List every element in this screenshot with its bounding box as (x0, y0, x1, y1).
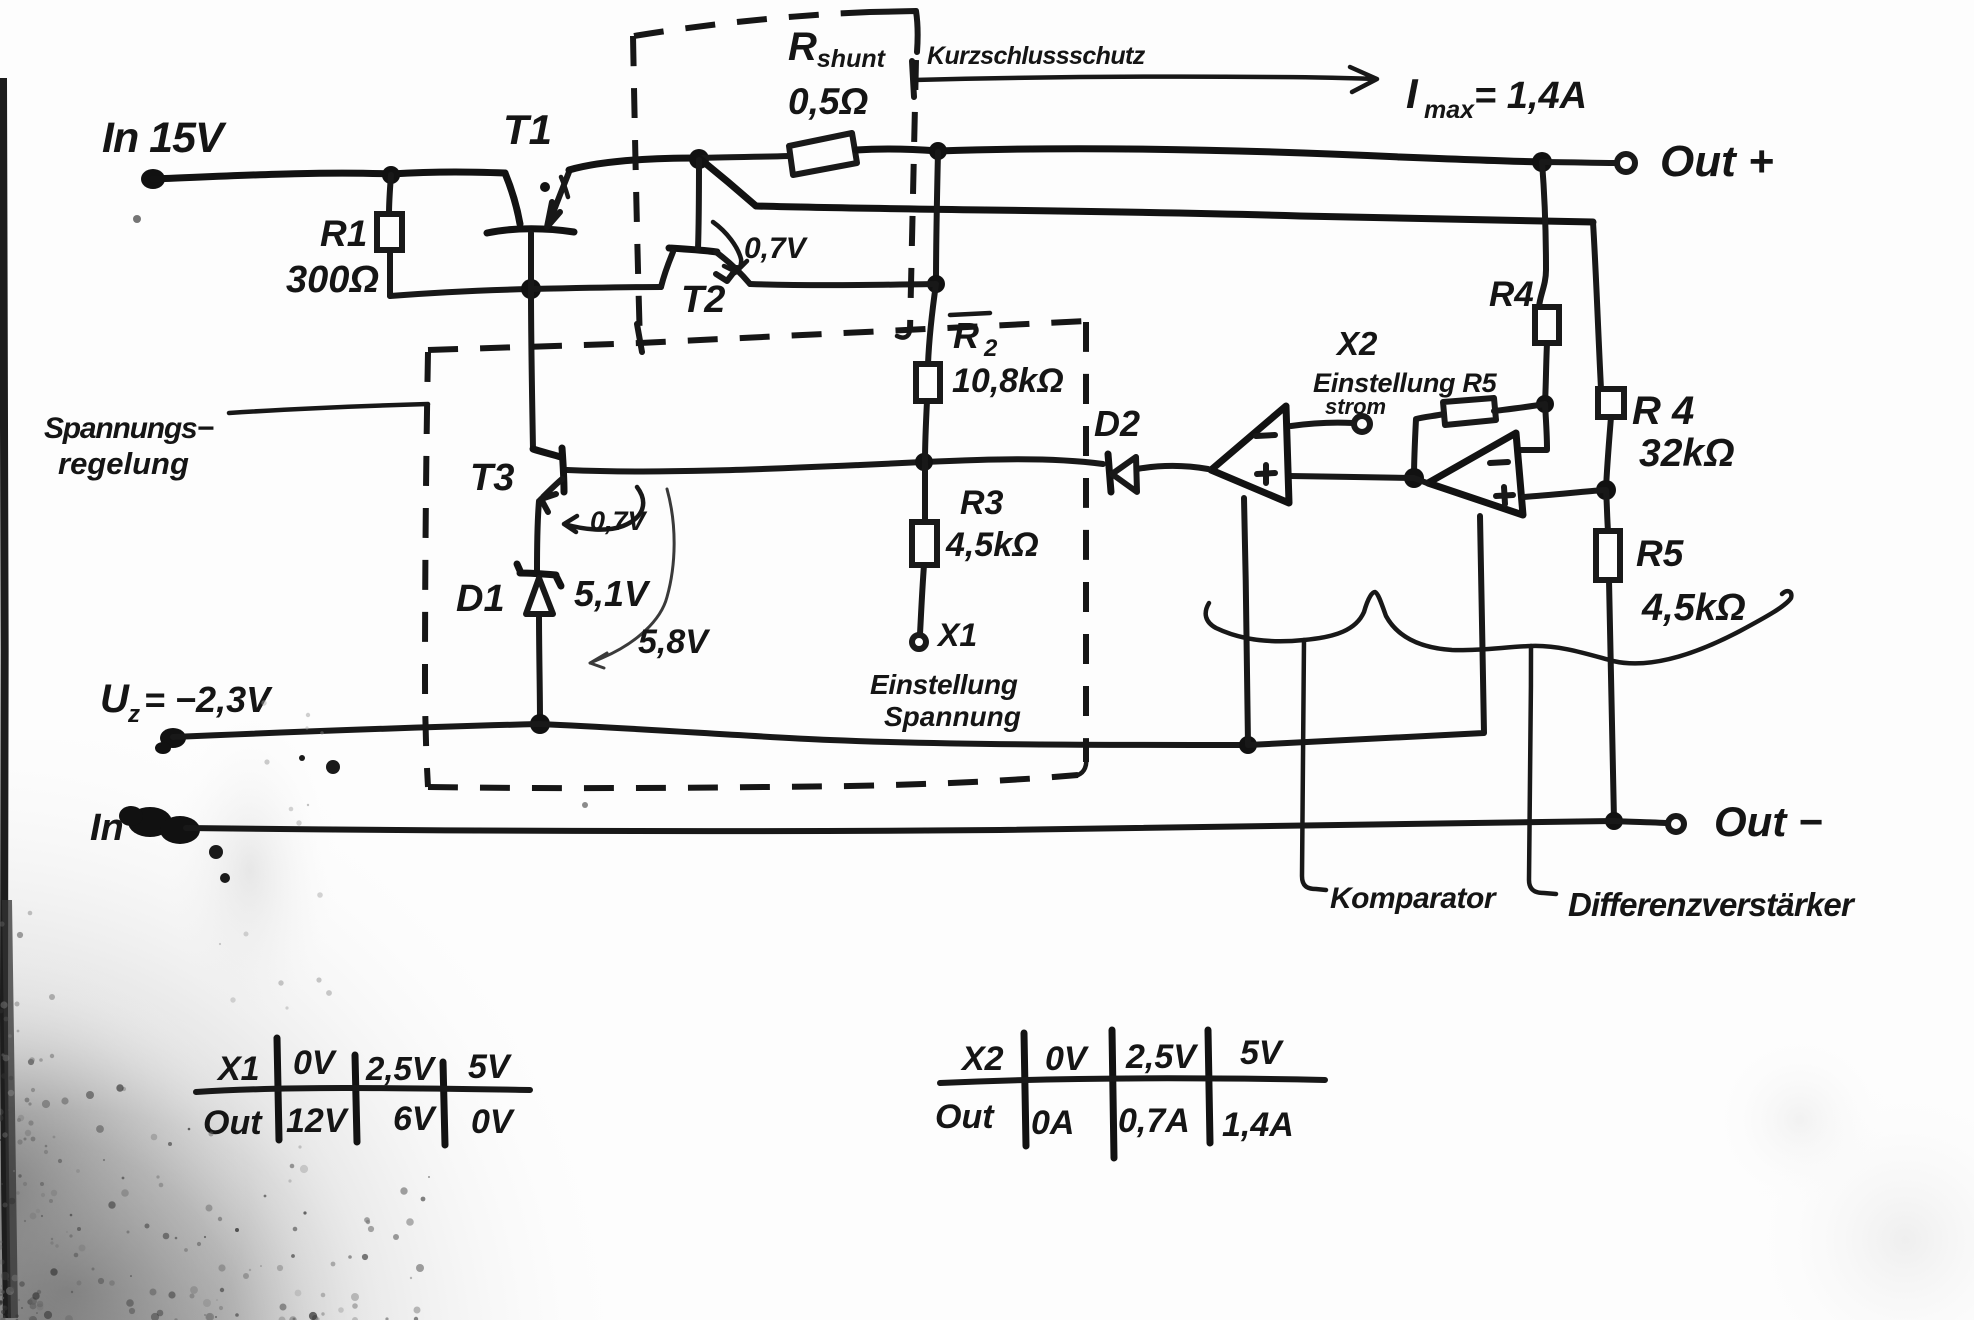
wire node K down to T3 (531, 290, 533, 449)
svg-text:5,8V: 5,8V (638, 623, 711, 661)
node I junction (927, 275, 945, 293)
wire D2 to op1 output (1137, 466, 1208, 469)
svg-text:Spannung: Spannung (884, 701, 1021, 732)
wire T2 collector to node I (750, 284, 935, 285)
svg-text:Einstellung: Einstellung (870, 669, 1018, 700)
svg-text:4,5kΩ: 4,5kΩ (945, 526, 1039, 564)
wire T3 emitter to D1 (537, 501, 539, 571)
svg-text:X2: X2 (1335, 325, 1378, 362)
transistor T2 (661, 160, 750, 287)
dashed box Kurzschlussschutz top (634, 12, 870, 36)
op-amp U2 Differenzverstaerker (1428, 433, 1523, 515)
wire op1 minus input to X2 (1291, 423, 1353, 426)
svg-text:5V: 5V (1240, 1034, 1285, 1072)
svg-text:R: R (953, 315, 979, 356)
node C junction (929, 142, 947, 160)
node J junction (1605, 812, 1623, 830)
svg-text:D2: D2 (1094, 403, 1140, 444)
svg-text:0A: 0A (1031, 1104, 1074, 1142)
wire input to node A (153, 173, 391, 179)
node B junction (689, 149, 709, 169)
svg-text:0,5Ω: 0,5Ω (788, 81, 868, 122)
resistor R1 (377, 214, 402, 250)
svg-text:Komparator: Komparator (1330, 882, 1498, 915)
wire second rail to R4 corner (756, 206, 1593, 222)
node Out- terminal (1668, 816, 1684, 832)
wire D1 to node L (539, 614, 540, 723)
svg-text:300Ω: 300Ω (286, 259, 379, 301)
svg-text:R 4: R 4 (1632, 389, 1694, 433)
node G junction (1536, 395, 1554, 413)
arrow 5,8V (590, 489, 674, 668)
svg-text:2,5V: 2,5V (1125, 1038, 1199, 1076)
svg-text:32kΩ: 32kΩ (1639, 432, 1735, 475)
svg-text:5,1V: 5,1V (574, 573, 651, 614)
wire node H down to R5 (1606, 490, 1608, 531)
dashed box Spannungsregelung right (1083, 322, 1089, 762)
wire R1 to corner (387, 250, 393, 296)
svg-text:X1: X1 (936, 617, 977, 653)
svg-text:5V: 5V (468, 1048, 513, 1086)
table X2 current (940, 1030, 1325, 1158)
svg-text:R1: R1 (320, 213, 367, 254)
wire top rail to node D (938, 149, 1542, 162)
corner speckle texture (decorative) (0, 700, 430, 1320)
scan left edge strip (decorative) (3, 78, 7, 1318)
svg-text:4,5kΩ: 4,5kΩ (1641, 587, 1746, 629)
wire node D down to R4 upper (1539, 162, 1546, 307)
svg-text:Kurzschlussschutz: Kurzschlussschutz (927, 42, 1146, 70)
node A junction (382, 166, 400, 184)
svg-text:strom: strom (1325, 394, 1386, 419)
node X2 terminal (1354, 416, 1370, 432)
svg-text:1,4A: 1,4A (1222, 1106, 1294, 1144)
svg-text:T1: T1 (503, 106, 552, 153)
arrow 0,7V at T2 (713, 222, 747, 273)
svg-text:10,8kΩ: 10,8kΩ (952, 362, 1064, 400)
wire R1 bottom rail to node K (390, 289, 530, 296)
wire node I to R2 (928, 284, 936, 364)
node Out+ terminal (1617, 154, 1635, 172)
wire Rshunt to node C (856, 149, 938, 151)
resistor R4 32k (1598, 389, 1624, 417)
wire R2 to node E (925, 401, 927, 461)
dashed box Kurzschlussschutz left (633, 36, 640, 344)
svg-text:= 1,4A: = 1,4A (1474, 75, 1587, 117)
op-amp U1 Komparator (1211, 406, 1289, 503)
svg-text:T3: T3 (470, 457, 514, 499)
svg-text:Spannungs−: Spannungs− (44, 412, 214, 445)
wire wavy brace (1206, 591, 1792, 663)
svg-text:0,7A: 0,7A (1118, 1102, 1190, 1140)
tick on divider (637, 324, 642, 352)
diode D2 (1108, 454, 1137, 492)
node Uz terminal (160, 728, 186, 748)
wire node A down to R1 (389, 175, 391, 214)
node D junction (1532, 152, 1552, 172)
svg-text:R4: R4 (1489, 275, 1534, 314)
wire feedback resistor left down to node F (1414, 414, 1444, 477)
svg-text:X1: X1 (216, 1050, 260, 1088)
resistor R4 upper (1535, 307, 1559, 343)
svg-text:0,7V: 0,7V (744, 232, 809, 265)
wire R5 down to node J on Out- rail (1609, 580, 1614, 820)
dashed box corner top right (870, 11, 918, 52)
node H junction (1596, 480, 1616, 500)
wire node B to Rshunt (699, 156, 789, 158)
svg-text:D1: D1 (456, 578, 505, 620)
wire Differenzverstaerker leader (1529, 646, 1556, 894)
wire T1 base down to node K (528, 233, 534, 288)
wire node E to R3 (922, 463, 928, 522)
wire node B diagonal to second rail (699, 158, 756, 206)
diode D1 zener (517, 564, 561, 614)
node E junction (915, 453, 933, 471)
svg-text:In 15V: In 15V (102, 114, 227, 162)
svg-text:6V: 6V (393, 1100, 438, 1138)
svg-text:X2: X2 (960, 1040, 1004, 1078)
svg-text:Out: Out (203, 1104, 263, 1142)
node X1 terminal (912, 635, 926, 649)
svg-text:z: z (127, 701, 140, 728)
scanner corner shading (decorative) (0, 740, 680, 1320)
resistor R2 (916, 364, 940, 401)
svg-text:2: 2 (983, 335, 998, 362)
wire Spannungsregelung leader (229, 404, 428, 413)
wire R3 to X1 (920, 565, 924, 634)
resistor Rshunt (789, 133, 857, 175)
svg-text:Differenzverstärker: Differenzverstärker (1568, 886, 1856, 923)
wire R4 upper to node G (1545, 343, 1547, 403)
dashed box Kurzschlussschutz right (910, 60, 916, 330)
wire op2 plus input to node H (1524, 490, 1604, 497)
wire Out- rail (186, 821, 1666, 831)
wire node D to Out+ terminal (1542, 162, 1616, 163)
svg-text:R5: R5 (1636, 533, 1685, 574)
node M junction (1239, 736, 1257, 754)
svg-text:Out +: Out + (1660, 137, 1774, 186)
arrow Kurzschlussschutz (914, 67, 1377, 92)
svg-text:0V: 0V (471, 1103, 516, 1141)
node L junction (530, 714, 550, 734)
node In 15V terminal (141, 169, 165, 189)
svg-text:2,5V: 2,5V (365, 1050, 437, 1087)
wire node A to T1 collector (391, 172, 505, 174)
svg-text:0V: 0V (293, 1044, 338, 1082)
arrow 0,7V at T3 (564, 487, 643, 532)
node In 0V terminal (119, 806, 200, 844)
wire Uz rail (173, 724, 1248, 745)
svg-text:max: max (1424, 96, 1475, 124)
wire node C down to node I (936, 152, 938, 283)
wire node K to T2 emitter (531, 287, 661, 289)
table X1 voltage (196, 1038, 530, 1145)
wire T3 base rail to node E and D2 (567, 459, 1103, 471)
node F junction (1404, 468, 1424, 488)
resistor R3 (912, 522, 937, 565)
ink specks (decorative) (133, 215, 588, 883)
svg-text:In: In (90, 807, 124, 849)
transistor T3 (533, 448, 564, 512)
dashed box Spannungsregelung left (425, 352, 428, 787)
wire node G to feedback resistor (1494, 404, 1545, 411)
dashed divider line (428, 321, 1086, 350)
svg-text:Out: Out (935, 1098, 995, 1136)
dashed box Spannungsregelung bottom (428, 775, 1078, 788)
svg-text:T2: T2 (681, 279, 725, 321)
resistor feedback (1443, 398, 1496, 425)
wire Uz rail to corner up (1248, 516, 1484, 745)
svg-text:12V: 12V (286, 1102, 350, 1140)
wire node G down and to op2 minus input (1519, 404, 1547, 450)
svg-text:Out −: Out − (1714, 798, 1823, 845)
svg-text:= −2,3V: = −2,3V (144, 679, 273, 720)
svg-text:regelung: regelung (58, 446, 189, 481)
wire corner down to R4 32k (1593, 222, 1601, 389)
svg-text:0,7V: 0,7V (590, 506, 648, 536)
wire T1 emitter to node B (569, 158, 699, 170)
arrow Kurzschlussschutz tick (912, 61, 914, 97)
resistor R5 (1596, 531, 1620, 580)
svg-text:0V: 0V (1045, 1040, 1090, 1078)
wire Komparator leader (1302, 640, 1326, 890)
transistor T1 (487, 172, 574, 233)
wire op1 bottom down to node M (1244, 498, 1248, 744)
svg-text:U: U (100, 677, 130, 721)
node K junction (521, 279, 541, 299)
svg-text:R3: R3 (960, 484, 1004, 522)
wire op1 plus input to node F (1290, 476, 1427, 483)
svg-text:I: I (1406, 70, 1419, 117)
wire R4 32k to node H (1606, 417, 1611, 489)
